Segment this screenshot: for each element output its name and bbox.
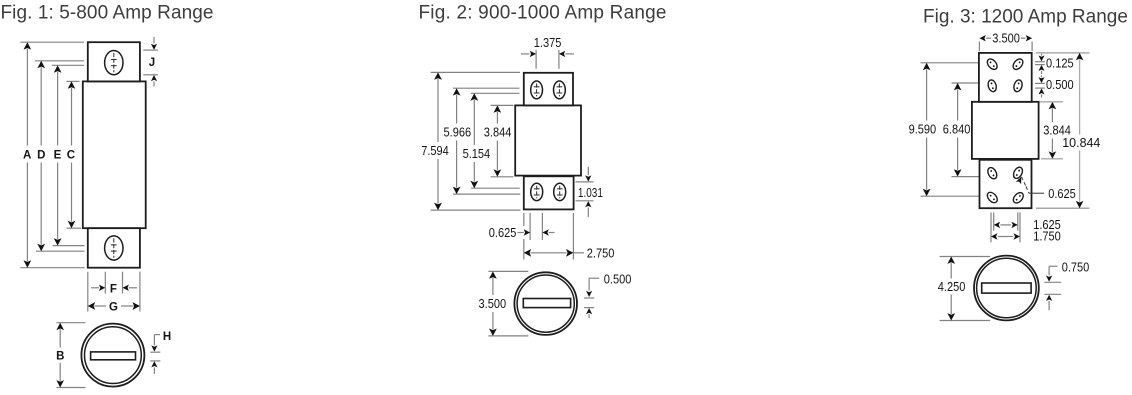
ext line E bottom [53,245,85,247]
1.031 ext top [576,181,594,183]
arrow 5.966 top [453,88,461,95]
0.750 leader vertical [1048,266,1050,275]
1.031 arrow tail bottom [587,207,589,217]
ext line C bottom [67,227,82,229]
0.500 ext top [1035,82,1045,84]
fig3 bottom cap slot r1c1 [986,166,999,180]
fig3 top cap [979,53,1032,102]
arrow 5.154 bottom [470,181,478,188]
svg-text:J: J [149,57,155,69]
0.625 leader horizontal [1029,192,1044,194]
fig3 bottom cap [980,160,1032,208]
3.844 ext top fig3 [1039,101,1063,103]
10.844 line bottom seg [1079,151,1081,202]
0.750 arrow tail bottom [1048,301,1050,310]
arrow D top [37,61,45,68]
0.500 ext bottom [584,307,594,309]
ext F left [104,272,106,294]
B line bottom seg [59,363,61,381]
fig2 bottom slot [554,183,566,200]
fig1 body [83,81,146,228]
3.844 ext bottom fig3 [1041,158,1063,160]
2.750 dim line [531,252,567,254]
ext 1.625 left [993,212,995,230]
5.966 ext bottom [453,193,520,195]
F arrow line left [91,287,99,289]
svg-text:C: C [67,150,75,162]
1.750 arrow left [991,233,997,239]
G dim line left [95,305,107,307]
fig3 top cap slot r1c1 [985,57,999,71]
ext line A top [20,41,84,43]
svg-text:B: B [56,351,64,363]
3.500 dim line right [1021,37,1026,39]
0.750 arrow up [1046,295,1052,301]
0.500 arrow tail bottom [1041,94,1043,97]
svg-text:7.594: 7.594 [421,144,449,158]
ext 0.625 left [529,213,531,240]
dimension line 5.154 [473,100,475,145]
0.750 bracket horizontal [1049,265,1057,267]
9.590 ext top [921,62,979,64]
3.500 arrow up [489,271,497,278]
fig1 top cap [88,42,140,81]
arrow A top [24,42,32,49]
4.250 arrow down [947,313,955,320]
ext F right [122,272,124,294]
1.375 arrow line left [521,53,530,55]
3.500 arrow down [489,329,497,336]
ext G right [139,272,141,312]
3.500 ext left [978,42,980,52]
0.125 ext bottom [1035,64,1045,66]
7.594 ext bottom [431,209,521,211]
ext cap top right long [1036,52,1090,54]
1.031 arrow down [585,175,591,181]
ext 1.750 right [1019,212,1021,242]
arrow 9.590 bottom [923,189,931,196]
fig2 bottom cap [524,176,574,209]
4.250 line bottom seg [950,295,952,315]
B arrow up [56,323,64,330]
svg-text:6.840: 6.840 [943,122,971,136]
1.750 arrow right [1014,233,1020,239]
3.844 ext top [491,104,514,106]
H ext bottom [150,360,160,362]
4.250 ext bottom [940,320,991,322]
J ext top [143,49,158,51]
3.500 ext bottom [488,335,528,337]
svg-text:D: D [37,150,45,162]
fig2 top cap [524,73,573,106]
fig2 end view inner circle [517,275,574,332]
0.500 arrow down [1039,77,1045,83]
arrow 7.594 bottom [434,203,442,210]
7.594 ext top [431,71,520,73]
0.750 ext top [1044,281,1061,283]
svg-text:G: G [109,302,118,314]
arrow E bottom [54,238,62,245]
B ext top [57,322,86,324]
svg-text:F: F [110,283,117,295]
0.750 arrow down [1046,276,1052,282]
J arrow up [151,75,157,81]
3.500 arrow right [1026,35,1032,41]
arrow 6.840 bottom [954,169,962,176]
F arrow right-pointing [99,285,105,291]
ext 2.750 left lower [523,239,525,260]
B arrow down [56,380,64,387]
9.590 ext bottom [921,195,980,197]
arrow 9.590 top [923,63,931,70]
fig3 end view inner circle [977,258,1037,318]
svg-text:9.590: 9.590 [909,122,937,136]
F arrow line right [129,287,137,289]
fig3 bottom cap slot r2c1 [985,190,999,204]
2.750 arrow left [524,249,531,257]
arrow C top [68,81,76,88]
svg-text:2.750: 2.750 [587,246,615,260]
0.500 arrow tail [1041,75,1043,77]
1.375 ext right [558,50,560,69]
H bracket horizontal [154,334,160,336]
10.844 line top seg [1079,59,1081,134]
0.500 leader vertical [588,278,590,290]
10.844 arrow down [1076,201,1084,208]
ext line A bottom [20,267,84,269]
tail between 0.125/0.500 [1041,71,1043,74]
2.750 arrow right [566,249,573,257]
0.125 arrow down [1039,55,1045,61]
3.844 line top seg [1051,108,1053,122]
svg-text:5.154: 5.154 [463,147,491,161]
0.625 leader arrowhead [1016,176,1024,185]
dimension line D [40,67,42,145]
0.625 arrow line left [518,232,524,234]
0.500 bracket horizontal [589,277,599,279]
fig3 end view outer circle [974,256,1039,321]
dimension line C [71,88,73,146]
3.500 ext top [488,270,528,272]
svg-text:1.375: 1.375 [534,36,562,50]
svg-text:0.750: 0.750 [1062,260,1090,274]
svg-text:3.500: 3.500 [992,32,1020,46]
4.250 ext top [940,256,991,258]
J ext bottom [143,74,158,76]
fig1 bottom cap [88,228,140,268]
5.966 ext top [453,87,520,89]
arrow 6.840 top [954,83,962,90]
B ext bottom [57,387,86,389]
0.625 leader dashes [1022,177,1027,187]
fig2 top slot [554,81,566,99]
fig3 end slot [982,283,1031,293]
0.125 arrow up [1039,65,1045,71]
fig1 bottom slot [105,236,123,260]
dimension line E [57,72,59,146]
arrow A bottom [24,260,32,267]
arrow 3.844 top [494,105,502,112]
dimension line 9.590 [926,69,928,120]
3.844 arrow down [1049,151,1057,158]
ext line C top [67,80,80,82]
3.844 arrow up [1049,102,1057,109]
ext line E top [52,64,84,66]
fig2 end slot [523,299,570,308]
G arrow right [133,302,140,310]
4.250 line top seg [950,263,952,279]
ext 0.625 right [541,213,543,240]
1.031 arrow tail top [587,167,589,175]
arrow E top [54,65,62,72]
3.500 arrow left [979,35,985,41]
ext line D top [35,60,84,62]
0.625 arrow left-pointing [542,229,548,235]
J arrow tail top [153,37,155,44]
arrow C bottom [68,221,76,228]
0.625 arrow line right [549,232,555,234]
fig2 bottom slot [531,183,543,200]
3.500 line bottom seg [492,312,494,329]
svg-text:10.844: 10.844 [1062,136,1100,150]
svg-text:Fig. 2: 900-1000 Amp Range: Fig. 2: 900-1000 Amp Range [419,3,667,24]
fig2 body [515,105,581,175]
fig3 top cap slot r2c2 [1013,79,1024,93]
svg-text:1.031: 1.031 [578,186,603,200]
svg-text:E: E [54,150,62,162]
svg-text:0.125: 0.125 [1046,56,1074,70]
svg-text:3.844: 3.844 [484,126,512,140]
1.375 arrow right-pointing [530,51,536,57]
svg-text:0.500: 0.500 [1046,78,1074,92]
3.500 dim line left [986,37,991,39]
fig3 bottom cap slot r1c2 [1012,166,1025,180]
3.844 ext bottom [491,176,514,178]
fig3 top cap slot r2c1 [987,79,998,93]
H leader vertical [153,335,155,346]
fig1 end view outer circle [81,324,144,387]
0.125 arrow tail top [1041,54,1043,56]
svg-text:A: A [23,150,31,162]
fig3 body [972,102,1039,159]
H arrow down [151,345,157,351]
ext 2.750 right [572,213,574,260]
J arrow down [151,44,157,50]
F arrow left-pointing [123,285,129,291]
svg-text:0.500: 0.500 [604,272,632,286]
3.500 ext right [1031,42,1033,52]
3.500 line top seg [492,278,494,295]
0.500 arrow down [586,291,592,297]
1.375 ext left [535,50,537,69]
1.625 dim line [1000,224,1011,226]
1.625 arrow left [994,222,1000,228]
2.750 leader to label [573,252,584,254]
dimension line A [26,49,28,146]
ext line D bottom [36,250,85,252]
0.500 arrow up [586,308,592,314]
5.154 ext top [471,92,520,94]
fig2 top slot [531,81,543,99]
H ext top [150,351,160,353]
3.844 line bottom seg [1051,139,1053,153]
4.250 arrow up [947,257,955,264]
arrow 7.594 top [434,72,442,79]
arrow D bottom [37,244,45,251]
0.625 arrow right-pointing [524,229,530,235]
dimension line 5.966 [456,95,458,124]
G arrow left [88,302,95,310]
svg-text:0.625: 0.625 [1048,187,1076,201]
arrow 5.154 top [470,93,478,100]
0.500 arrow tail bottom [588,314,590,318]
svg-text:4.250: 4.250 [938,280,966,294]
svg-text:1.750: 1.750 [1033,229,1061,243]
H arrow tail bottom [153,367,155,374]
svg-text:5.966: 5.966 [444,126,472,140]
fig1 top slot [105,51,123,75]
arrow 5.966 bottom [453,187,461,194]
fig1 end view inner circle [85,327,142,384]
ext G left [87,272,89,312]
svg-text:3.500: 3.500 [479,297,507,311]
1.375 arrow line right [565,53,574,55]
6.840 ext top [952,82,979,84]
svg-text:Fig. 3: 1200 Amp Range: Fig. 3: 1200 Amp Range [923,6,1128,27]
0.750 ext bottom [1044,293,1061,295]
0.500 ext top [584,297,594,299]
6.840 ext bottom [952,176,980,178]
1.750 dim line [998,236,1013,238]
svg-text:Fig. 1: 5-800 Amp Range: Fig. 1: 5-800 Amp Range [1,3,214,24]
ext cap bottom right long [1036,207,1090,209]
B line top seg [59,329,61,348]
5.154 ext bottom [471,187,520,189]
svg-text:0.625: 0.625 [489,226,517,240]
dimension line 3.844 [496,112,498,124]
svg-text:H: H [163,331,171,343]
0.500 ext bottom [1035,87,1045,89]
1.375 arrow left-pointing [559,51,565,57]
ext 2.750 left upper [523,213,525,226]
dimension line 7.594 [437,79,439,142]
10.844 arrow up [1076,53,1084,60]
H arrow up [151,361,157,367]
1.625 arrow right [1011,222,1017,228]
fig2 end view outer circle [514,272,577,335]
0.500 arrow up [1039,88,1045,94]
ext 1.625 right [1017,212,1019,230]
1.031 arrow up [585,201,591,207]
fig3 top cap slot r1c2 [1011,57,1025,71]
J arrow tail bottom [153,81,155,86]
fig3 bottom cap slot r2c2 [1011,191,1025,205]
0.125 ext top [1035,61,1045,63]
G dim line right [121,305,133,307]
ext 1.750 left [990,212,992,242]
1.031 ext bottom [576,200,594,202]
arrow 3.844 bottom [494,169,502,176]
dimension line 6.840 [957,90,959,121]
fig1 end slot [91,352,136,360]
